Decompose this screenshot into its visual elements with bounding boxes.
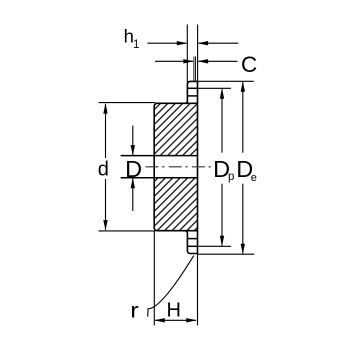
H dimension line <box>155 319 196 321</box>
bore bottom line <box>121 177 198 179</box>
extension line plate left top <box>186 25 188 83</box>
hatching upper block (hub+plate section above bore) <box>154 103 197 155</box>
Dp dimension line upper <box>221 89 223 153</box>
svg-text:p: p <box>228 171 234 183</box>
d arrow down <box>103 220 107 231</box>
H arrow right-pointing <box>186 318 197 322</box>
svg-text:e: e <box>251 172 257 184</box>
svg-text:r: r <box>130 298 139 322</box>
De arrow up <box>241 81 245 92</box>
C arrow right-pointing <box>183 59 194 63</box>
svg-text:H: H <box>167 300 181 322</box>
tooth rung top 1 <box>187 87 197 89</box>
H arrow left-pointing <box>154 318 165 322</box>
plate left edge upper with fillet into hub <box>185 84 188 104</box>
tooth rung bottom 2 <box>187 245 197 247</box>
svg-text:C: C <box>241 52 257 77</box>
svg-text:1: 1 <box>133 39 139 51</box>
H left extension line <box>153 231 155 326</box>
hub top edge with rounded left corner <box>154 103 197 106</box>
Dp arrow down <box>220 236 224 247</box>
h1 dimension line right <box>198 42 238 44</box>
tooth rung top 2 <box>187 95 197 97</box>
De extension bottom <box>198 253 255 255</box>
d dimension line <box>105 104 107 158</box>
d arrow up <box>103 103 107 114</box>
Dp arrow up <box>220 88 224 99</box>
Dp extension bottom <box>198 245 232 247</box>
d top extension line <box>99 102 156 104</box>
h1 arrow left-pointing <box>198 41 209 45</box>
De arrow down <box>241 244 245 255</box>
C arrow left-pointing <box>198 59 209 63</box>
tooth tip bottom edge with rounded left corner <box>187 251 197 254</box>
svg-text:D: D <box>125 156 142 182</box>
De extension top <box>198 80 254 82</box>
Dp dimension line lower <box>221 184 223 246</box>
D arrow down to bore <box>131 145 135 156</box>
extension line C (tooth chamfer edge) <box>193 57 195 82</box>
D dimension line lower <box>132 179 134 211</box>
Dp extension top <box>198 87 232 89</box>
De dimension line lower <box>242 184 244 254</box>
H right extension line <box>197 254 199 326</box>
h1 dimension line left <box>147 42 186 44</box>
C dimension line left <box>155 60 193 62</box>
bore top line <box>121 155 198 157</box>
hatching lower block (hub+plate section below bore) <box>154 178 197 231</box>
De dimension line upper <box>242 82 244 153</box>
svg-text:d: d <box>98 159 109 181</box>
plate right edge <box>197 81 199 253</box>
extension line C inner <box>195 57 197 82</box>
tooth rung bottom 1 <box>187 238 197 240</box>
extension line plate right top <box>197 25 199 82</box>
tooth tip top edge with rounded left corner <box>187 81 197 84</box>
hub left edge <box>153 106 155 229</box>
C dimension line right <box>198 60 237 62</box>
centerline <box>146 166 212 168</box>
D dimension line upper <box>132 126 134 155</box>
d bottom extension line <box>99 230 156 232</box>
r leader curve <box>148 256 194 317</box>
hub bottom edge with rounded left corner <box>154 228 197 231</box>
plate left edge lower with fillet into hub <box>185 231 188 251</box>
D arrow up to bore <box>131 178 135 189</box>
h1 arrow right-pointing <box>177 41 188 45</box>
